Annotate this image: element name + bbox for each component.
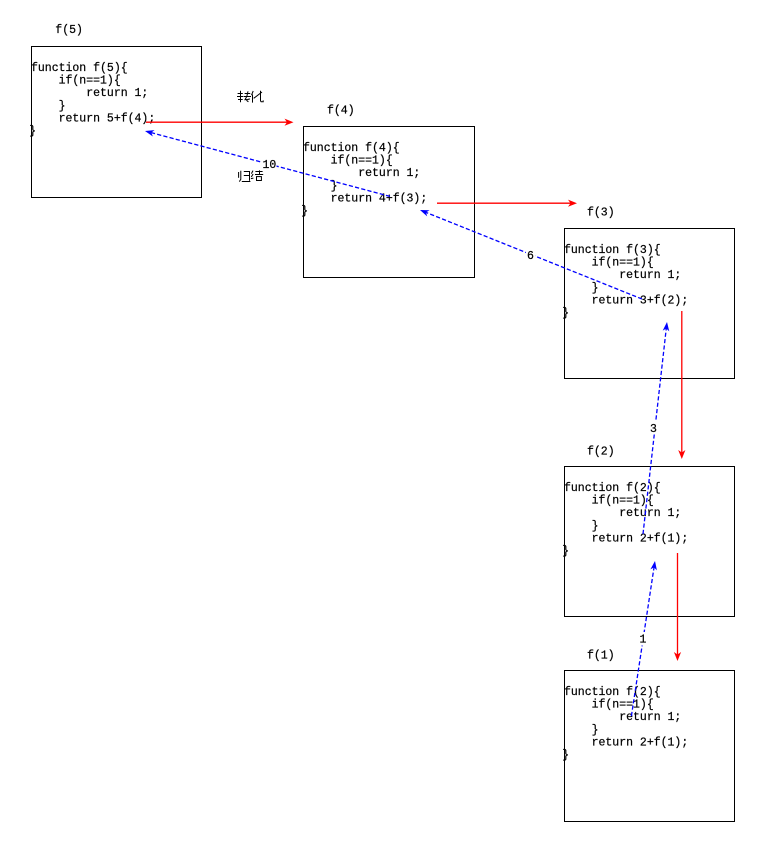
code f(3) (562, 244, 688, 320)
svg-text:}: } (301, 205, 308, 218)
svg-text:}: } (564, 520, 599, 533)
code f(5) (29, 62, 155, 138)
svg-text:if(n==1){: if(n==1){ (303, 155, 393, 168)
svg-text:return 3+f(2);: return 3+f(2); (564, 294, 688, 307)
svg-text:}: } (564, 282, 599, 295)
blue arrow 1 f(1)->f(2) (631, 561, 657, 716)
label f(2) (587, 445, 615, 458)
svg-text:}: } (303, 180, 338, 193)
svg-text:return 1;: return 1; (564, 269, 681, 282)
svg-text:function f(3){: function f(3){ (564, 244, 661, 257)
red arrow 转化 f(5)->f(4) (146, 119, 294, 126)
svg-text:if(n==1){: if(n==1){ (564, 699, 654, 712)
code f(2) (562, 482, 688, 558)
label 归结 (reduce) (239, 170, 264, 181)
svg-text:f(2): f(2) (587, 445, 615, 458)
blue arrow 6 f(3)->f(4) (420, 210, 642, 299)
svg-text:f(5): f(5) (55, 24, 83, 37)
svg-text:function f(2){: function f(2){ (564, 482, 661, 495)
svg-text:return 2+f(1);: return 2+f(1); (564, 736, 688, 749)
svg-text:}: } (562, 545, 569, 558)
svg-text:if(n==1){: if(n==1){ (31, 75, 121, 88)
label f(4) (327, 104, 355, 117)
label 1 (638, 632, 648, 647)
svg-text:f(3): f(3) (587, 207, 615, 220)
svg-text:f(4): f(4) (327, 104, 355, 117)
label 10 (262, 158, 277, 172)
box f(3) (565, 229, 735, 379)
code f(4) (301, 142, 427, 218)
blue arrow 归结 10 f(4)->f(5) (145, 130, 390, 196)
red arrow f(3)->f(2) (678, 311, 685, 459)
label 3 (649, 421, 659, 436)
svg-text:function f(2){: function f(2){ (564, 686, 661, 699)
svg-text:f(1): f(1) (587, 649, 615, 662)
blue arrow 3 f(2)->f(3) (643, 322, 669, 534)
svg-text:return 1;: return 1; (31, 87, 148, 100)
svg-text:if(n==1){: if(n==1){ (564, 257, 654, 270)
svg-text:function f(4){: function f(4){ (303, 142, 400, 155)
red arrow f(4)->f(3) (437, 200, 577, 207)
label 转化 (transform) (237, 91, 263, 103)
box f(1) (565, 671, 735, 822)
svg-text:}: } (31, 100, 66, 113)
svg-text:if(n==1){: if(n==1){ (564, 495, 654, 508)
svg-text:}: } (564, 724, 599, 737)
svg-text:return 4+f(3);: return 4+f(3); (303, 192, 427, 205)
label f(5) (55, 24, 83, 37)
svg-text:6: 6 (527, 250, 534, 263)
code f(1) (562, 686, 688, 762)
box f(4) (304, 127, 475, 278)
svg-text:return 2+f(1);: return 2+f(1); (564, 532, 688, 545)
svg-text:return 1;: return 1; (564, 507, 681, 520)
svg-text:}: } (562, 749, 569, 762)
svg-text:}: } (562, 307, 569, 320)
label 6 (526, 249, 535, 264)
svg-text:1: 1 (640, 634, 647, 647)
label f(3) (587, 207, 615, 220)
svg-text:3: 3 (650, 423, 657, 436)
svg-text:}: } (29, 125, 36, 138)
svg-text:return 5+f(4);: return 5+f(4); (31, 112, 155, 125)
box f(2) (565, 467, 735, 617)
red arrow f(2)->f(1) (674, 553, 681, 661)
box f(5) (32, 47, 202, 198)
svg-text:function f(5){: function f(5){ (31, 62, 128, 75)
label f(1) (587, 649, 615, 662)
svg-text:return 1;: return 1; (564, 711, 681, 724)
svg-text:10: 10 (263, 159, 277, 172)
